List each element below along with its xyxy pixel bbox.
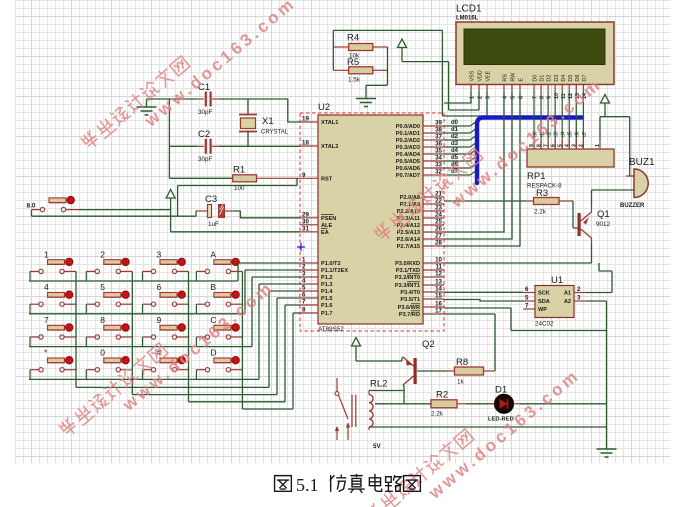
svg-text:LCD1: LCD1	[456, 4, 482, 15]
svg-text:C2: C2	[198, 129, 210, 140]
svg-text:D2: D2	[547, 75, 553, 82]
lcd pin 8 D1	[540, 75, 546, 99]
svg-text:A1: A1	[564, 291, 571, 297]
wire VEE down	[486, 92, 488, 116]
wire keypad row 2 to P1.1	[29, 270, 300, 314]
wire button 4 left drop	[29, 304, 31, 314]
wire button 3 left drop	[142, 271, 144, 281]
mcu pin 18 XTAL2	[300, 140, 338, 151]
mcu pin 32 P0.7/AD7	[396, 169, 444, 180]
mcu pin 16 P3.6/WR	[398, 301, 444, 312]
lcd pin 7 D0	[533, 75, 539, 99]
svg-text:d7: d7	[582, 131, 588, 137]
svg-text:28: 28	[435, 240, 442, 247]
svg-text:RW: RW	[511, 73, 517, 82]
svg-text:U1: U1	[551, 275, 563, 286]
wire C3 left down to switch row	[195, 211, 197, 216]
eeprom pin 3 A2	[564, 295, 586, 306]
wire net d6 from P0.6	[444, 163, 477, 168]
mcu pin 33 P0.6/AD6	[396, 162, 444, 173]
svg-text:4: 4	[564, 144, 570, 147]
svg-text:EA: EA	[321, 230, 329, 236]
respack pin 1 common	[595, 117, 601, 149]
svg-text:P0.1/AD1: P0.1/AD1	[396, 131, 420, 137]
svg-text:R8: R8	[456, 357, 468, 368]
svg-text:13: 13	[435, 279, 442, 286]
keypad button 4	[30, 291, 76, 306]
svg-text:D0: D0	[533, 75, 539, 82]
lcd pin 9 D2	[547, 75, 553, 99]
mcu pin 15 P3.5/T1	[400, 293, 444, 304]
svg-text:R3: R3	[536, 188, 548, 199]
ground bottom right	[597, 449, 617, 457]
svg-text:2: 2	[577, 286, 581, 293]
svg-text:2: 2	[302, 264, 306, 271]
keypad button 3	[143, 258, 189, 273]
wire power to EA pin 31	[171, 210, 300, 232]
capacitor C3 polarized	[196, 194, 233, 228]
wire crystal top	[247, 99, 249, 114]
svg-text:7: 7	[302, 299, 306, 306]
resistor R3	[526, 188, 571, 216]
svg-text:11: 11	[435, 264, 442, 271]
mcu origin marker	[297, 243, 305, 251]
svg-text:4: 4	[44, 282, 49, 292]
wire button 7 left drop	[29, 337, 31, 347]
svg-text:CRYSTAL: CRYSTAL	[261, 130, 289, 136]
wire net d4 from P0.4	[444, 149, 477, 154]
svg-text:1k: 1k	[457, 379, 465, 386]
mcu pin 2 P1.1/T2EX	[300, 264, 348, 275]
keypad button 1	[30, 258, 76, 273]
wire crystal bottom	[247, 132, 249, 147]
mcu pin 21 P2.0/A8	[400, 191, 444, 202]
svg-text:d5: d5	[568, 131, 574, 137]
respack pin 2	[579, 140, 585, 149]
wire VDD down	[478, 92, 480, 110]
svg-text:d3: d3	[554, 131, 560, 137]
mcu pin 13 P3.3/INT1	[395, 279, 444, 290]
wire C1 to XTAL1	[219, 99, 300, 122]
resistor R5	[333, 57, 387, 84]
power terminal above MCU	[398, 39, 407, 62]
svg-text:A2: A2	[564, 299, 571, 305]
svg-text:P1.4: P1.4	[321, 289, 333, 295]
svg-text:P1.3: P1.3	[321, 282, 333, 288]
wire button 9 left drop	[142, 337, 144, 347]
svg-text:RL2: RL2	[370, 379, 387, 390]
wire top rail to VEE	[333, 30, 487, 116]
lcd pin 12 D5	[568, 75, 574, 99]
pushbutton S0	[32, 196, 78, 211]
svg-text:P2.5/A13: P2.5/A13	[397, 230, 420, 236]
svg-text:P1.2: P1.2	[321, 275, 333, 281]
wire R4 R5 left vertical	[332, 30, 334, 70]
keypad button A	[196, 258, 242, 273]
svg-text:RP1: RP1	[527, 171, 545, 182]
wire RW to P2.6	[444, 92, 512, 239]
wire net d5 from P0.5	[444, 156, 477, 161]
wire P2.0 to R3	[444, 200, 526, 202]
respack pin 3	[572, 140, 578, 149]
mcu pin 6 P1.5	[300, 292, 333, 303]
svg-text:P1.5: P1.5	[321, 296, 333, 302]
watermark 2 chinese	[58, 341, 168, 437]
svg-text:R5: R5	[347, 57, 359, 68]
svg-text:D5: D5	[568, 75, 574, 82]
watermark 3 chinese	[373, 146, 483, 242]
ground near C1	[137, 99, 157, 115]
svg-text:P3.1/TXD: P3.1/TXD	[396, 268, 420, 274]
svg-text:VSS: VSS	[470, 70, 476, 81]
mcu U2 highlight dashed box	[300, 113, 444, 331]
svg-text:3: 3	[302, 271, 306, 278]
wire LCD D7 to RP1	[582, 92, 584, 149]
lcd pin 2 VDD	[478, 70, 484, 99]
svg-text:d6: d6	[575, 131, 581, 137]
capacitor C2	[197, 129, 219, 163]
mcu pin 36 P0.3/AD3	[396, 141, 444, 152]
svg-text:6: 6	[302, 292, 306, 299]
transistor Q2	[403, 339, 435, 385]
eeprom pin 6 SCK	[523, 286, 550, 297]
svg-text:XTAL1: XTAL1	[321, 120, 338, 126]
keypad button 0	[86, 357, 132, 372]
lcd pin 13 D6	[575, 75, 581, 99]
svg-text:1.5k: 1.5k	[348, 77, 361, 84]
svg-text:5.1: 5.1	[296, 475, 319, 495]
mcu pin 26 P2.5/A13	[397, 226, 444, 237]
svg-text:2: 2	[579, 144, 585, 147]
respack RP1 body	[527, 149, 614, 167]
mcu pin 24 P2.3/A11	[397, 212, 444, 223]
svg-text:RST: RST	[321, 177, 333, 183]
keypad button 6	[143, 291, 189, 306]
keypad button 5	[86, 291, 132, 306]
mcu pin 23 P2.2/A10	[397, 205, 444, 216]
keypad button 2	[86, 258, 132, 273]
svg-text:B: B	[210, 282, 216, 292]
wire LCD D4 to RP1	[561, 92, 563, 149]
wire left vertical C1-C2-R1	[168, 99, 170, 178]
wire LCD D2 to RP1	[547, 92, 549, 149]
mcu pin 31 EA	[300, 225, 329, 236]
mcu pin 14 P3.4/T0	[400, 286, 444, 297]
keypad button B	[196, 291, 242, 306]
wire Q1 collector to P3.0	[444, 243, 592, 263]
wire bottom return row	[369, 426, 607, 428]
wire button C left drop	[195, 337, 197, 347]
wire main row through R2 and D1	[375, 403, 431, 405]
svg-text:4: 4	[302, 278, 306, 285]
mcu pin 9 RST	[300, 172, 333, 183]
wire net d2 from P0.2	[444, 135, 477, 140]
svg-text:7: 7	[44, 315, 49, 325]
wire keypad row 4 to P1.3	[29, 284, 300, 379]
crystal X1	[239, 115, 289, 136]
wire P3.4 to SCK	[444, 291, 523, 293]
led D1 LED-RED	[488, 385, 520, 423]
svg-text:7: 7	[525, 303, 529, 310]
svg-text:24: 24	[435, 212, 442, 219]
svg-text:D1: D1	[540, 75, 546, 82]
svg-text:d3: d3	[451, 141, 459, 147]
svg-text:R1: R1	[233, 165, 245, 176]
svg-text:P0.7/AD7: P0.7/AD7	[396, 173, 420, 179]
svg-text:0: 0	[100, 348, 105, 358]
wire A2 to ground rail	[586, 300, 607, 302]
wire P3.6 to WP junction	[444, 308, 607, 331]
svg-text:6: 6	[157, 282, 162, 292]
mcu pin 35 P0.4/AD4	[396, 148, 444, 159]
svg-text:5: 5	[100, 282, 105, 292]
wire net d3 from P0.3	[444, 142, 477, 147]
svg-text:31: 31	[302, 225, 309, 232]
wire R4 R5 right to ground	[366, 47, 388, 99]
wire RS to P2.5	[444, 92, 504, 232]
mcu pin 28 P2.7/A15	[397, 240, 444, 251]
svg-text:33: 33	[435, 162, 442, 169]
wire R3 to Q1 base	[571, 201, 578, 228]
svg-text:D1: D1	[495, 385, 507, 396]
svg-text:R4: R4	[347, 33, 359, 44]
svg-text:30pF: 30pF	[198, 156, 213, 163]
mcu pin 37 P0.2/AD2	[396, 134, 444, 145]
wire button 6 left drop	[142, 304, 144, 314]
svg-text:P3.3/INT1: P3.3/INT1	[395, 283, 420, 289]
svg-text:d4: d4	[561, 131, 567, 137]
wire button 1 left drop	[29, 271, 31, 281]
svg-text:D: D	[210, 348, 216, 358]
wire LCD D5 to RP1	[568, 92, 570, 149]
capacitor C1	[197, 82, 219, 116]
mcu pin 19 XTAL1	[300, 116, 338, 127]
svg-text:D4: D4	[561, 75, 567, 82]
lcd pin 1 VSS	[470, 70, 476, 99]
wire E to P2.7	[444, 92, 520, 246]
svg-text:8.0: 8.0	[27, 203, 36, 210]
svg-text:5V: 5V	[373, 443, 382, 450]
lcd pin 3 VEE	[486, 70, 492, 99]
keypad button #	[143, 357, 189, 372]
svg-text:30pF: 30pF	[198, 109, 213, 116]
svg-text:27: 27	[435, 233, 442, 240]
wire button D left drop	[195, 370, 197, 380]
svg-text:LM016L: LM016L	[456, 16, 479, 22]
mcu pin 38 P0.1/AD1	[396, 127, 444, 138]
watermark 2 url	[118, 277, 277, 415]
svg-text:1uF: 1uF	[208, 221, 219, 228]
wire net d0 from P0.0	[444, 121, 477, 126]
svg-text:C3: C3	[205, 194, 217, 205]
svg-text:29: 29	[302, 211, 309, 218]
mcu pin 12 P3.2/INT0	[395, 271, 444, 282]
svg-text:9012: 9012	[596, 221, 611, 228]
mcu pin 1 P1.0/T2	[300, 257, 341, 268]
wire net d1 from P0.1	[444, 128, 477, 133]
svg-text:P3.0/RXD: P3.0/RXD	[395, 261, 420, 267]
svg-text:P2.6/A14: P2.6/A14	[397, 237, 421, 243]
power terminal at Q2	[352, 338, 361, 362]
mcu pin 8 P1.7	[300, 307, 333, 318]
svg-text:17: 17	[435, 308, 442, 315]
svg-text:P2.0/A8: P2.0/A8	[400, 195, 420, 201]
svg-text:BUZ1: BUZ1	[629, 157, 655, 168]
svg-text:2: 2	[100, 249, 105, 259]
wire right ground vertical	[606, 301, 608, 449]
respack pin 9	[529, 140, 535, 149]
mcu U2 body	[318, 115, 423, 324]
wire switch right to power	[78, 209, 171, 211]
wire C3 right to PSEN	[233, 211, 300, 218]
svg-text:6: 6	[550, 144, 556, 147]
relay switch arm	[335, 378, 350, 440]
svg-text:d2: d2	[451, 134, 459, 140]
mcu pin 5 P1.4	[300, 285, 333, 296]
svg-text:34: 34	[435, 155, 442, 162]
wire keypad column 2 to P1.5	[132, 271, 300, 394]
svg-text:5: 5	[525, 295, 529, 302]
bus (blue) P0 to LCD data	[477, 118, 582, 184]
svg-text:RS: RS	[503, 74, 509, 82]
keypad button 7	[30, 324, 76, 339]
respack pin 6	[550, 140, 556, 149]
keypad button *	[30, 357, 76, 372]
wire keypad row 3 to P1.2	[29, 277, 300, 347]
mcu pin 11 P3.1/TXD	[396, 264, 444, 275]
wire button # left drop	[142, 370, 144, 380]
svg-text:19: 19	[302, 116, 309, 123]
svg-text:X1: X1	[262, 116, 274, 127]
svg-text:25: 25	[435, 219, 442, 226]
svg-text:D6: D6	[575, 75, 581, 82]
lcd screen	[464, 29, 605, 65]
svg-text:3: 3	[157, 249, 162, 259]
watermark 1 url	[140, 0, 299, 131]
respack pin 4	[564, 140, 570, 149]
svg-text:14: 14	[435, 286, 442, 293]
svg-text:E: E	[519, 78, 525, 82]
mcu pin 30 ALE	[300, 218, 332, 229]
svg-text:P1.6: P1.6	[321, 303, 333, 309]
svg-text:39: 39	[435, 120, 442, 127]
svg-text:35: 35	[435, 148, 442, 155]
svg-text:3: 3	[572, 144, 578, 147]
svg-text:15: 15	[435, 293, 442, 300]
caption figure 5.1	[275, 475, 421, 493]
svg-text:12: 12	[435, 271, 442, 278]
svg-text:AT89S52: AT89S52	[318, 326, 344, 333]
wire LCD D0 to RP1	[533, 92, 535, 149]
wire R8 to Q2 base	[417, 370, 446, 372]
respack pin 7	[543, 140, 549, 149]
wire power to VDD	[402, 62, 479, 110]
svg-text:36: 36	[435, 141, 442, 148]
wire R1 to RST pin 9	[257, 177, 301, 179]
wire switch left to row	[32, 210, 197, 217]
svg-text:PSEN: PSEN	[321, 216, 336, 222]
mcu pin 7 P1.6	[300, 299, 333, 310]
svg-text:10: 10	[435, 257, 442, 264]
svg-text:1: 1	[44, 249, 49, 259]
keypad button D	[196, 357, 242, 372]
wire coil top to Q2 collector	[369, 390, 404, 392]
resistor R4	[333, 33, 387, 60]
keypad button 8	[86, 324, 132, 339]
power terminal above RP1	[601, 95, 610, 117]
svg-text:P1.1/T2EX: P1.1/T2EX	[321, 268, 348, 274]
power terminal near switch	[166, 190, 175, 210]
svg-text:23: 23	[435, 205, 442, 212]
svg-text:P2.7/A15: P2.7/A15	[397, 244, 420, 250]
svg-text:9: 9	[302, 172, 306, 179]
wire LCD D1 to RP1	[540, 92, 542, 149]
svg-text:7: 7	[543, 144, 549, 147]
lcd pin 14 D7	[582, 75, 588, 99]
respack pin 8	[536, 140, 542, 149]
svg-text:P0.5/AD5: P0.5/AD5	[396, 159, 420, 165]
mcu pin 17 P3.7/RD	[399, 308, 444, 319]
svg-text:1: 1	[595, 144, 601, 147]
wire A1 to collector net	[586, 263, 612, 293]
wire R2 to D1	[466, 403, 495, 405]
wire LCD D3 to RP1	[554, 92, 556, 149]
svg-text:d5: d5	[451, 155, 459, 161]
svg-text:SCK: SCK	[538, 291, 550, 297]
wire D1 to ground rail	[520, 403, 607, 405]
svg-text:d0: d0	[451, 120, 459, 126]
eeprom pin 2 A1	[564, 286, 586, 297]
watermark 3 url	[446, 74, 605, 212]
lcd LCD1 body	[456, 22, 614, 85]
svg-text:XTAL2: XTAL2	[321, 144, 338, 150]
svg-text:5: 5	[557, 144, 563, 147]
svg-text:d4: d4	[451, 148, 459, 154]
lcd pin 11 D4	[561, 75, 567, 99]
svg-text:P3.6/WR: P3.6/WR	[398, 305, 420, 311]
wire keypad column 3 to P1.6	[189, 271, 301, 401]
svg-text:P3.4/T0: P3.4/T0	[400, 290, 420, 296]
mcu pin 3 P1.2	[300, 271, 333, 282]
transistor Q1 PNP 9012	[578, 205, 611, 243]
keypad button C	[196, 324, 242, 339]
wire button * left drop	[29, 370, 31, 380]
svg-text:P0.3/AD3: P0.3/AD3	[396, 145, 420, 151]
watermark 1 chinese	[80, 54, 190, 150]
lcd pin 6 E	[519, 78, 525, 100]
eeprom pin 7 WP	[523, 303, 547, 314]
svg-text:P0.4/AD4: P0.4/AD4	[396, 152, 421, 158]
svg-text:VEE: VEE	[486, 70, 492, 81]
watermark 4 chinese	[364, 427, 474, 507]
svg-text:1: 1	[302, 257, 306, 264]
eeprom pin 5 SDA	[523, 295, 550, 306]
eeprom U1 body	[535, 286, 574, 318]
resistor R8	[446, 357, 495, 386]
wire C2 to XTAL2	[219, 145, 300, 147]
svg-text:9: 9	[157, 315, 162, 325]
svg-text:R2: R2	[436, 390, 448, 401]
svg-text:P3.5/T1: P3.5/T1	[400, 297, 420, 303]
wire button 5 left drop	[85, 304, 87, 314]
wire keypad column 1 to P1.4	[76, 271, 300, 387]
svg-text:P3.2/INT0: P3.2/INT0	[395, 275, 420, 281]
svg-text:d1: d1	[451, 127, 459, 133]
lcd pin 4 RS	[503, 74, 509, 99]
wire button B left drop	[195, 304, 197, 314]
svg-text:18: 18	[302, 140, 309, 147]
mcu pin 4 P1.3	[300, 278, 333, 289]
